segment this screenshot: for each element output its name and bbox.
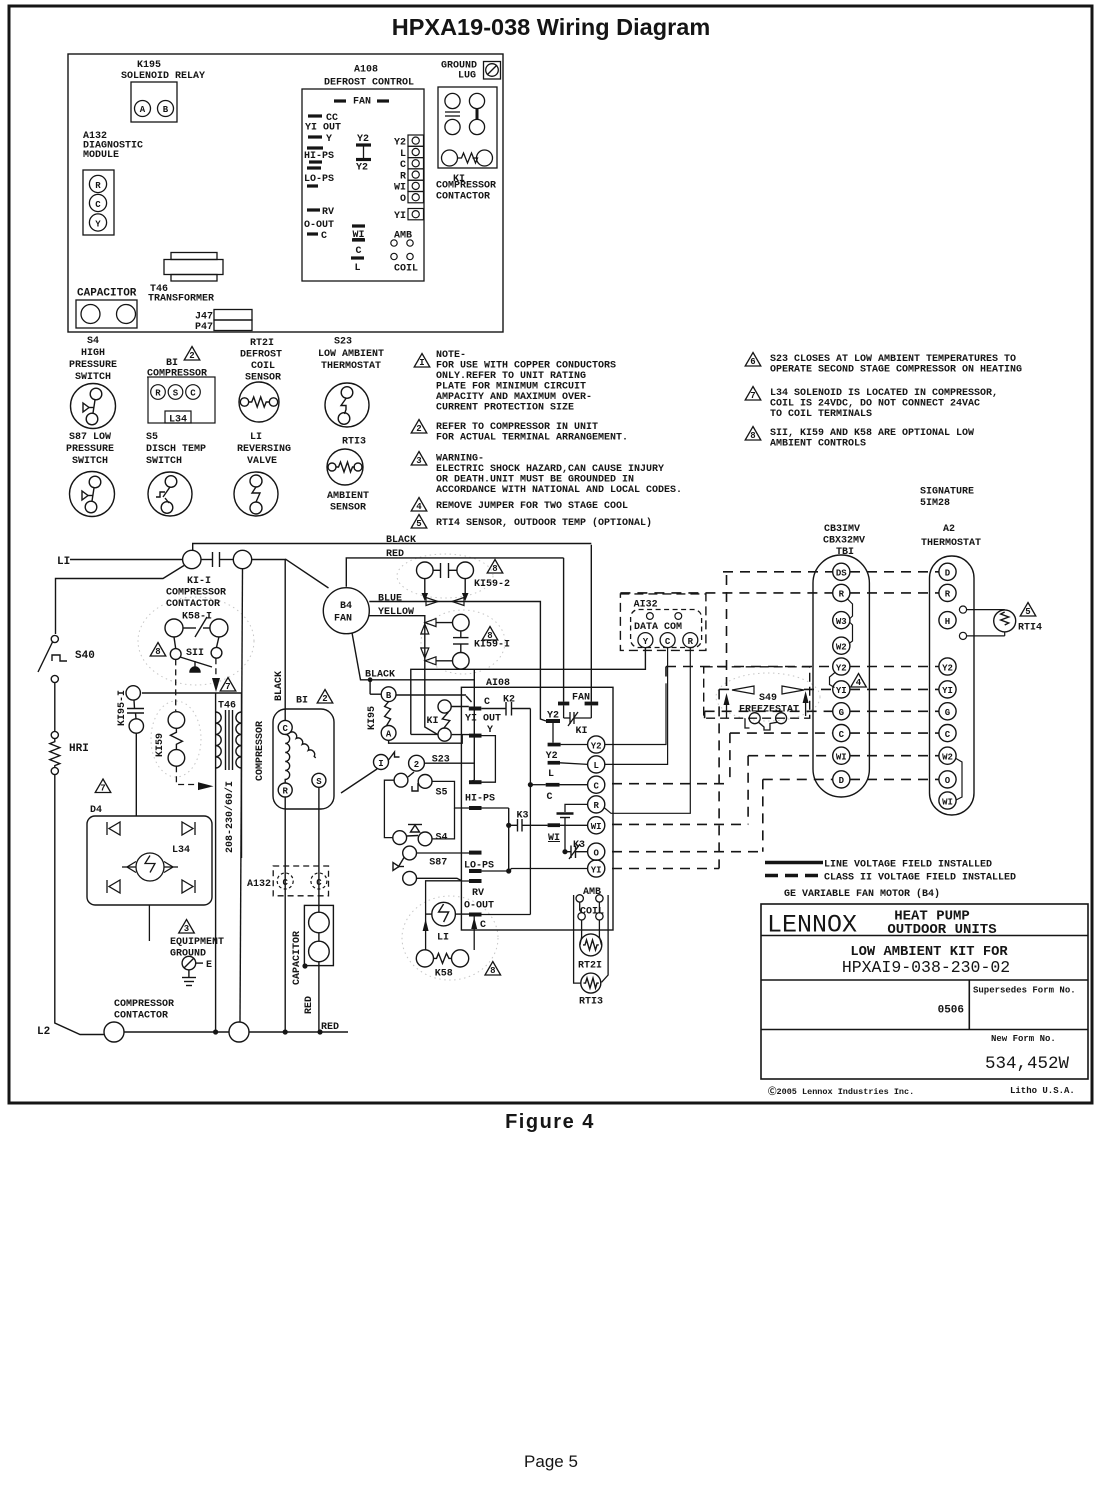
- svg-text:K58: K58: [435, 969, 453, 980]
- svg-text:EQUIPMENT: EQUIPMENT: [170, 937, 224, 948]
- svg-text:8: 8: [490, 966, 495, 976]
- relay contacts K58: [416, 950, 468, 967]
- svg-text:YI: YI: [942, 686, 953, 696]
- relay switch S11: [170, 637, 222, 672]
- svg-text:RTI3: RTI3: [579, 997, 603, 1008]
- svg-text:COMPRESSOR: COMPRESSOR: [114, 999, 174, 1010]
- arrow into T46 with triangle 7: [212, 678, 220, 692]
- svg-text:R: R: [945, 590, 951, 600]
- svg-text:Y2: Y2: [394, 138, 406, 149]
- svg-text:OPERATE SECOND STAGE COMPRESSO: OPERATE SECOND STAGE COMPRESSOR ON HEATI…: [770, 365, 1022, 376]
- svg-text:YI OUT: YI OUT: [465, 714, 501, 725]
- TB1 jumper R-W3-W2: [847, 599, 853, 619]
- contactor contacts K1-1: [183, 550, 252, 568]
- svg-text:ELECTRIC SHOCK HAZARD,CAN CAUS: ELECTRIC SHOCK HAZARD,CAN CAUSE INJURY: [436, 464, 664, 475]
- svg-text:GROUND: GROUND: [170, 949, 206, 960]
- wire S23 to bar: [424, 762, 474, 764]
- svg-text:S23 CLOSES AT LOW AMBIENT TEMP: S23 CLOSES AT LOW AMBIENT TEMPERATURES T…: [770, 354, 1016, 365]
- wire K58 to C arrow: [473, 917, 475, 951]
- svg-text:R: R: [95, 181, 101, 191]
- svg-text:CONTACTOR: CONTACTOR: [166, 599, 220, 610]
- svg-text:RT2I: RT2I: [578, 961, 602, 972]
- svg-text:FAN: FAN: [353, 97, 371, 108]
- svg-text:COMPRESSOR: COMPRESSOR: [166, 588, 226, 599]
- wire A132 C to L: [605, 648, 668, 765]
- wire K159 bottom dashed with arrow: [176, 766, 197, 784]
- equipment ground: [179, 920, 195, 934]
- svg-text:RED: RED: [386, 549, 404, 560]
- svg-text:I: I: [378, 759, 383, 769]
- svg-text:L: L: [593, 761, 598, 771]
- relay K159 coil: [168, 712, 185, 767]
- thermostat S23 schematic: [341, 752, 424, 793]
- svg-text:Litho U.S.A.: Litho U.S.A.: [1010, 1086, 1075, 1096]
- svg-text:COMPRESSOR: COMPRESSOR: [436, 181, 496, 192]
- svg-text:534,452W: 534,452W: [985, 1054, 1070, 1074]
- svg-text:KI59-I: KI59-I: [474, 640, 510, 651]
- svg-text:S49: S49: [759, 693, 777, 704]
- A108 terminal bar C + K2 cap: [469, 707, 482, 711]
- svg-text:G: G: [945, 708, 950, 718]
- svg-text:8: 8: [155, 647, 160, 657]
- svg-text:O: O: [593, 849, 599, 859]
- svg-text:R: R: [593, 801, 599, 811]
- svg-text:WI: WI: [394, 183, 406, 194]
- A108 terminal bar Y: [469, 734, 482, 738]
- svg-text:2: 2: [189, 351, 194, 361]
- svg-text:BLUE: BLUE: [378, 594, 402, 605]
- svg-text:C: C: [355, 246, 361, 257]
- svg-text:WI: WI: [942, 797, 953, 807]
- svg-text:LOW AMBIENT: LOW AMBIENT: [318, 349, 384, 360]
- wire left rail top: [56, 566, 185, 635]
- note 3 triangle: [411, 452, 427, 466]
- svg-text:FREEZESTAT: FREEZESTAT: [739, 705, 799, 716]
- svg-text:YI OUT: YI OUT: [305, 123, 341, 134]
- svg-text:LUG: LUG: [458, 71, 476, 82]
- wire S11 right to T46 arrow: [215, 658, 217, 678]
- wire O-OUT bar to inner vertical: [482, 914, 531, 916]
- svg-text:2: 2: [416, 424, 421, 434]
- W1 bar: [548, 823, 560, 827]
- fan motor B4: [323, 588, 369, 634]
- svg-text:BI: BI: [166, 358, 178, 369]
- A108 right terminals Y2 L C R W1 O Y1: [588, 736, 605, 877]
- wire left rail bottom: [55, 775, 104, 1035]
- svg-text:4: 4: [856, 678, 862, 688]
- svg-text:SOLENOID RELAY: SOLENOID RELAY: [121, 71, 205, 82]
- svg-text:Y2: Y2: [356, 163, 368, 174]
- svg-text:O-OUT: O-OUT: [464, 901, 494, 912]
- svg-text:A: A: [140, 105, 146, 115]
- svg-text:CONTACTOR: CONTACTOR: [436, 192, 490, 203]
- svg-text:Y: Y: [643, 637, 649, 647]
- relay contacts K159-2: [417, 562, 474, 593]
- svg-text:RTI3: RTI3: [342, 437, 366, 448]
- wire K195-1 pin5 down: [135, 733, 137, 816]
- relay contacts K159-1: [436, 614, 469, 669]
- svg-text:OR DEATH.UNIT MUST BE GROUNDED: OR DEATH.UNIT MUST BE GROUNDED IN: [436, 475, 634, 486]
- svg-text:C: C: [484, 697, 490, 708]
- svg-text:Y: Y: [95, 220, 101, 230]
- note 5 triangle: [411, 515, 427, 529]
- svg-text:D: D: [945, 569, 951, 579]
- note 6 triangle: [745, 353, 761, 367]
- svg-text:K58-I: K58-I: [182, 612, 212, 623]
- svg-text:3: 3: [416, 456, 421, 466]
- wire rail x285 compressor black: [284, 560, 286, 721]
- note 2 triangle: [411, 420, 427, 434]
- svg-text:6: 6: [750, 357, 755, 367]
- svg-text:WI: WI: [548, 833, 560, 844]
- svg-text:DS: DS: [836, 569, 847, 579]
- dashed wire O A108 row: [612, 851, 763, 853]
- solenoid L34: [122, 853, 178, 881]
- svg-text:K2: K2: [503, 695, 515, 706]
- svg-text:LI: LI: [437, 933, 449, 944]
- svg-text:T46: T46: [218, 701, 236, 712]
- svg-text:DEFROST CONTROL: DEFROST CONTROL: [324, 78, 414, 89]
- svg-text:FAN: FAN: [334, 614, 352, 625]
- scan texture halos: [138, 554, 820, 980]
- svg-text:CBX32MV: CBX32MV: [823, 536, 865, 547]
- svg-text:RV: RV: [322, 207, 334, 218]
- svg-text:S87 LOW: S87 LOW: [69, 432, 111, 443]
- svg-text:KI: KI: [427, 716, 439, 727]
- svg-text:B: B: [163, 105, 169, 115]
- svg-text:COIL: COIL: [580, 907, 604, 918]
- switch S4: [393, 808, 455, 846]
- dashed wire Y2 row: [666, 666, 833, 668]
- svg-text:S: S: [316, 777, 322, 787]
- wire D4 to ground feed: [148, 905, 150, 941]
- note 1 triangle: [414, 354, 430, 368]
- wire S11 to K159 dashed: [175, 659, 177, 711]
- svg-text:Y2: Y2: [546, 751, 558, 762]
- svg-text:HRI: HRI: [69, 743, 89, 755]
- svg-text:C: C: [282, 724, 288, 734]
- relay coil K195 B/A: [370, 680, 469, 743]
- dashed wire R row: [620, 592, 832, 594]
- dashed wire W1 A108 row: [612, 823, 748, 825]
- A132 data-com dashed module: [620, 594, 706, 651]
- A108 W1 C L pins: [351, 226, 365, 258]
- wire A108 inner vertical k2: [529, 709, 531, 915]
- svg-text:5: 5: [416, 519, 421, 529]
- svg-text:P47: P47: [195, 322, 213, 333]
- svg-text:3: 3: [184, 924, 189, 934]
- svg-text:R: R: [839, 590, 845, 600]
- svg-text:O: O: [945, 776, 951, 786]
- svg-text:D4: D4: [90, 805, 102, 816]
- svg-text:KI95-I: KI95-I: [117, 690, 128, 726]
- svg-text:TRANSFORMER: TRANSFORMER: [148, 294, 214, 305]
- svg-text:S23: S23: [334, 337, 352, 348]
- svg-text:K195: K195: [137, 60, 161, 71]
- wire compressor R down red: [284, 797, 286, 1032]
- svg-text:WI: WI: [352, 230, 364, 241]
- svg-text:C: C: [400, 160, 406, 171]
- freezestat S49 dashed box: [704, 667, 810, 718]
- svg-text:OUTDOOR UNITS: OUTDOOR UNITS: [887, 922, 996, 938]
- wire LO-PS to Y1: [482, 870, 509, 872]
- svg-text:CB3IMV: CB3IMV: [824, 524, 860, 535]
- svg-text:AMPACITY AND MAXIMUM OVER-: AMPACITY AND MAXIMUM OVER-: [436, 392, 592, 403]
- svg-text:CAPACITOR: CAPACITOR: [292, 931, 303, 985]
- svg-text:LO-PS: LO-PS: [304, 174, 334, 185]
- svg-text:KI95: KI95: [367, 706, 378, 730]
- svg-text:KI-I: KI-I: [187, 576, 211, 587]
- svg-text:REFER TO COMPRESSOR IN UNIT: REFER TO COMPRESSOR IN UNIT: [436, 422, 598, 433]
- svg-text:S40: S40: [75, 650, 95, 662]
- svg-text:2: 2: [414, 760, 419, 770]
- svg-text:Ⓒ2005 Lennox Industries Inc.: Ⓒ2005 Lennox Industries Inc.: [768, 1086, 914, 1097]
- svg-text:NOTE-: NOTE-: [436, 350, 466, 361]
- svg-text:COIL IS 24VDC, DO NOT CONNECT: COIL IS 24VDC, DO NOT CONNECT 24VAC: [770, 399, 980, 410]
- svg-text:HI-PS: HI-PS: [465, 794, 495, 805]
- svg-text:C: C: [839, 730, 845, 740]
- contactor K1 pictorial: [438, 87, 497, 168]
- svg-text:DEFROST: DEFROST: [240, 350, 282, 361]
- svg-text:A2: A2: [943, 524, 955, 535]
- svg-text:Y: Y: [487, 725, 493, 736]
- svg-text:AMB: AMB: [583, 887, 601, 898]
- sensor RT14: [967, 610, 1016, 636]
- svg-text:A108: A108: [354, 65, 378, 76]
- svg-text:L2: L2: [37, 1026, 50, 1038]
- wire B4 black bottom diagonal: [352, 633, 474, 680]
- svg-text:S5: S5: [436, 788, 448, 799]
- title block: [761, 904, 1088, 1079]
- terminal strip A2: [930, 556, 975, 815]
- switch S40: [38, 635, 67, 682]
- arrowheads on BLUE at K159-2: [426, 598, 438, 606]
- svg-text:SWITCH: SWITCH: [72, 456, 108, 467]
- svg-text:A: A: [386, 730, 392, 740]
- svg-text:A132: A132: [247, 879, 271, 890]
- svg-text:THERMOSTAT: THERMOSTAT: [921, 538, 981, 549]
- wire Y2 circle up: [605, 684, 666, 745]
- TB1 jumper Y2-Y1: [830, 672, 836, 688]
- svg-text:S: S: [173, 389, 179, 399]
- svg-text:COMPRESSOR: COMPRESSOR: [255, 721, 266, 781]
- A132 terminal block R C Y: [83, 170, 114, 235]
- svg-text:C: C: [321, 231, 327, 242]
- relay K195-1: [126, 686, 144, 734]
- svg-text:RTI4 SENSOR, OUTDOOR TEMP (OPT: RTI4 SENSOR, OUTDOOR TEMP (OPTIONAL): [436, 517, 652, 529]
- svg-text:ONLY.REFER TO UNIT RATING: ONLY.REFER TO UNIT RATING: [436, 371, 586, 382]
- svg-text:Supersedes Form No.: Supersedes Form No.: [973, 986, 1076, 996]
- A108 terminal bars LO-PS RV: [469, 851, 482, 855]
- svg-text:RTI4: RTI4: [1018, 623, 1042, 634]
- dashed wire G row: [705, 710, 833, 712]
- svg-text:KI59: KI59: [155, 733, 166, 757]
- svg-text:W3: W3: [836, 617, 847, 627]
- svg-text:GE VARIABLE FAN MOTOR (B4): GE VARIABLE FAN MOTOR (B4): [784, 888, 940, 900]
- svg-text:New Form No.: New Form No.: [991, 1034, 1056, 1044]
- svg-text:FOR ACTUAL TERMINAL ARRANGEMEN: FOR ACTUAL TERMINAL ARRANGEMENT.: [436, 433, 628, 444]
- svg-text:FOR USE WITH COPPER CONDUCTORS: FOR USE WITH COPPER CONDUCTORS: [436, 361, 616, 372]
- svg-text:C: C: [945, 730, 951, 740]
- svg-text:WI: WI: [836, 753, 847, 763]
- wire rail x242.5 to L2 contact: [240, 569, 243, 1022]
- switch S5: [394, 772, 432, 791]
- dashed wire C row TB1: [730, 732, 833, 734]
- svg-text:BLACK: BLACK: [274, 671, 285, 701]
- svg-text:C: C: [190, 389, 196, 399]
- svg-text:WI: WI: [591, 822, 602, 832]
- svg-text:L34: L34: [169, 415, 187, 426]
- switch S87: [393, 846, 417, 885]
- A108 terminal bar HI-PS: [469, 806, 482, 810]
- svg-text:AMBIENT CONTROLS: AMBIENT CONTROLS: [770, 439, 866, 450]
- svg-text:LI: LI: [250, 432, 262, 443]
- svg-text:C: C: [480, 920, 486, 931]
- svg-text:W2: W2: [942, 753, 953, 763]
- svg-text:R: R: [282, 787, 288, 797]
- svg-text:C: C: [546, 792, 552, 803]
- svg-text:SII, KI59 AND K58 ARE OPTIONAL: SII, KI59 AND K58 ARE OPTIONAL LOW: [770, 428, 974, 439]
- svg-text:G: G: [839, 708, 844, 718]
- svg-text:HPXAI9-038-230-02: HPXAI9-038-230-02: [842, 958, 1010, 977]
- svg-text:D: D: [839, 776, 845, 786]
- svg-text:Y: Y: [326, 134, 332, 145]
- svg-text:ACCORDANCE WITH NATIONAL AND L: ACCORDANCE WITH NATIONAL AND LOCAL CODES…: [436, 485, 682, 496]
- S49 switch: [745, 713, 787, 730]
- A2 H pins: [959, 606, 966, 613]
- svg-text:SENSOR: SENSOR: [330, 503, 366, 514]
- dashed wire Y1 A108 row: [612, 868, 719, 870]
- svg-text:RT2I: RT2I: [250, 338, 274, 349]
- svg-text:SII: SII: [186, 648, 204, 659]
- svg-text:4: 4: [416, 502, 422, 512]
- rectifier D4 box: [95, 779, 111, 793]
- svg-text:DATA COM: DATA COM: [634, 622, 682, 633]
- svg-text:C: C: [95, 200, 101, 210]
- dashed wire D row TB1: [763, 778, 833, 780]
- svg-text:J47: J47: [195, 312, 213, 323]
- relay contact K1 inside A108: [438, 696, 472, 741]
- diodes in D4: [107, 822, 195, 893]
- svg-text:R: R: [688, 637, 694, 647]
- border frame: [9, 6, 1092, 1103]
- svg-text:CLASS II VOLTAGE FIELD INSTALL: CLASS II VOLTAGE FIELD INSTALLED: [824, 873, 1016, 884]
- resistor HR1: [50, 731, 60, 774]
- S49 arrows: [732, 686, 754, 694]
- A108 terminal bar S23: [469, 780, 482, 784]
- svg-text:BLACK: BLACK: [386, 535, 416, 546]
- terminal strip TB1: [813, 555, 869, 797]
- svg-text:Y2: Y2: [836, 663, 847, 673]
- svg-text:0506: 0506: [938, 1005, 964, 1017]
- svg-text:PLATE FOR MINIMUM CIRCUIT: PLATE FOR MINIMUM CIRCUIT: [436, 382, 586, 393]
- wire R cap W1 chain: [565, 804, 588, 812]
- svg-text:CAPACITOR: CAPACITOR: [77, 288, 137, 300]
- svg-text:C: C: [593, 782, 599, 792]
- junction dots on L2 wire: [283, 1029, 288, 1034]
- svg-text:H: H: [945, 617, 950, 627]
- svg-text:208-230/60/I: 208-230/60/I: [224, 781, 236, 853]
- svg-text:SIGNATURE: SIGNATURE: [920, 487, 974, 498]
- wire BLACK down into FAN: [590, 545, 592, 702]
- A108 right terminal boxes: [408, 135, 424, 220]
- svg-text:E: E: [206, 960, 212, 971]
- svg-text:KI: KI: [575, 726, 587, 737]
- legend line voltage: [765, 861, 823, 865]
- svg-text:7: 7: [750, 391, 755, 401]
- svg-text:REVERSING: REVERSING: [237, 444, 291, 455]
- wire BLACK top: [193, 544, 592, 551]
- svg-text:LINE VOLTAGE FIELD INSTALLED: LINE VOLTAGE FIELD INSTALLED: [824, 860, 992, 871]
- note 4 triangle: [411, 498, 427, 512]
- svg-text:S4: S4: [436, 833, 448, 844]
- svg-text:PRESSURE: PRESSURE: [69, 360, 117, 371]
- svg-text:I: I: [419, 358, 424, 368]
- svg-text:2: 2: [322, 694, 327, 704]
- svg-text:RED: RED: [321, 1022, 339, 1033]
- wire L1 feed: [70, 559, 183, 561]
- wire compressor S down to capacitor: [318, 787, 320, 912]
- A2 jumper W2-W1: [956, 759, 962, 801]
- svg-text:R: R: [400, 171, 406, 182]
- dashed vertical feeds: [665, 667, 667, 685]
- svg-text:RV: RV: [472, 888, 484, 899]
- dashed wire DS row: [612, 572, 939, 869]
- svg-text:L: L: [400, 149, 406, 160]
- svg-text:7: 7: [100, 784, 105, 794]
- svg-text:LI: LI: [57, 556, 70, 568]
- wire S5 loop to S4: [384, 780, 394, 837]
- A108 bar C: [546, 783, 560, 787]
- sensor RT13 schematic: [581, 973, 601, 993]
- svg-text:R: R: [155, 389, 161, 399]
- svg-text:CURRENT PROTECTION SIZE: CURRENT PROTECTION SIZE: [436, 403, 574, 414]
- svg-text:HI-PS: HI-PS: [304, 151, 334, 162]
- svg-text:VALVE: VALVE: [247, 456, 277, 467]
- wire HI-PS right: [482, 807, 509, 809]
- dashed wire Y1 row: [719, 688, 732, 690]
- svg-text:KI59-2: KI59-2: [474, 579, 510, 590]
- svg-text:MODULE: MODULE: [83, 150, 119, 161]
- note 8 triangle: [745, 427, 761, 441]
- svg-text:L: L: [548, 769, 554, 780]
- transformer T46 pictorial: [164, 253, 223, 282]
- svg-text:WARNING-: WARNING-: [436, 454, 484, 465]
- svg-text:COIL: COIL: [251, 361, 275, 372]
- relay K195 pictorial: [131, 82, 177, 122]
- svg-text:Y2: Y2: [942, 663, 953, 673]
- svg-text:BI: BI: [296, 696, 308, 707]
- dashed wire W1 row TB1: [850, 755, 939, 757]
- svg-text:L34: L34: [172, 845, 190, 856]
- dashed wire W1 TB1 left: [748, 755, 833, 757]
- svg-text:C: C: [316, 878, 322, 888]
- svg-text:7: 7: [225, 682, 230, 692]
- A108 bar L: [548, 761, 560, 765]
- svg-text:Page 5: Page 5: [524, 1452, 578, 1471]
- svg-text:TO COIL TERMINALS: TO COIL TERMINALS: [770, 409, 872, 420]
- wire RED top: [346, 558, 563, 587]
- svg-text:CONTACTOR: CONTACTOR: [114, 1011, 168, 1022]
- svg-text:YI: YI: [394, 211, 406, 222]
- svg-text:SWITCH: SWITCH: [146, 456, 182, 467]
- svg-text:L: L: [354, 263, 360, 274]
- A108 left pin bars: [307, 116, 323, 234]
- svg-text:8: 8: [492, 564, 497, 574]
- legend class II: [765, 874, 823, 878]
- svg-text:DISCH TEMP: DISCH TEMP: [146, 444, 206, 455]
- sensor RT21 schematic: [580, 934, 602, 956]
